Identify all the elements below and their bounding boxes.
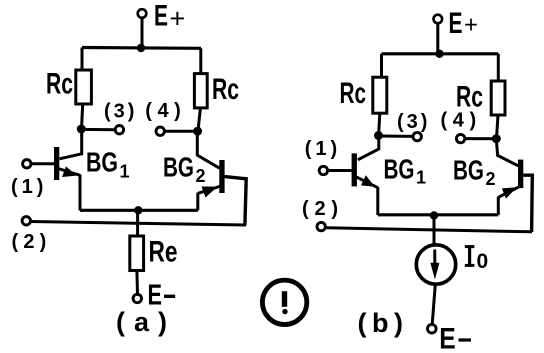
terminal (2) (a)	[22, 217, 30, 225]
wire base BG1 (a)	[31, 162, 54, 165]
junction collector node left (b)	[374, 131, 383, 140]
svg-text:Rc: Rc	[212, 73, 239, 106]
terminal (3) (b)	[413, 132, 421, 140]
wire rail to Rc left (a)	[81, 48, 84, 72]
terminal (1) (a)	[23, 160, 31, 168]
wire rail to Rc right (a)	[199, 48, 202, 74]
terminal (2) (b)	[317, 222, 325, 230]
junction collector node right (b)	[492, 134, 501, 143]
wire Rc to collector node (b)	[379, 113, 380, 135]
wire base BG2 (a)	[225, 177, 247, 225]
wire Rc right to node (a)	[198, 108, 200, 131]
wire collector BG2 (a)	[197, 131, 219, 168]
terminal E- (b)	[428, 324, 437, 333]
transistor BG1 (a)	[54, 147, 80, 211]
wire emitter rail (b)	[378, 213, 499, 216]
junction top rail (b)	[435, 50, 443, 58]
resistor Rc right (b)	[491, 81, 505, 115]
label E- (a)	[148, 280, 176, 312]
junction emitter rail (a)	[134, 206, 142, 214]
label E+ (b)	[449, 7, 479, 40]
svg-text:(b): (b)	[358, 308, 409, 338]
svg-text:Rc: Rc	[456, 81, 483, 114]
junction collector node right (a)	[193, 127, 202, 136]
resistor Rc left (b)	[373, 77, 387, 113]
svg-text:(a): (a)	[116, 307, 176, 337]
wire base BG2 (b)	[523, 175, 532, 232]
wire terminal 2 to BG2 base (b)	[326, 228, 532, 232]
label BG1 (b)	[384, 154, 427, 188]
wire terminal 2 to BG2 base (a)	[31, 222, 246, 226]
wire terminal 4 to node (a)	[164, 130, 197, 133]
svg-text:1: 1	[120, 162, 130, 182]
svg-text:Re: Re	[149, 236, 178, 269]
svg-text:Rc: Rc	[340, 77, 367, 110]
svg-text:(2): (2)	[12, 231, 52, 253]
label BG2 (a)	[163, 152, 206, 187]
svg-text:2: 2	[196, 166, 206, 186]
terminal E+ (a)	[138, 9, 147, 18]
wire emitter rail (a)	[80, 209, 198, 212]
wire Rc to collector node (a)	[82, 104, 83, 129]
wire Rc right to node (b)	[497, 115, 499, 139]
svg-text:(1): (1)	[305, 138, 341, 160]
transistor BG1 (b)	[352, 153, 378, 215]
label BG2 (b)	[453, 155, 496, 190]
terminal (3) (a)	[115, 126, 123, 134]
terminal E- (a)	[133, 294, 141, 302]
wire collector BG1 (a)	[60, 129, 82, 159]
wire top rail (a)	[82, 46, 201, 50]
transistor BG2 (a)	[198, 160, 225, 211]
label I0 (b)	[465, 246, 488, 273]
wire rail to Rc right (b)	[497, 54, 500, 82]
svg-text:(3): (3)	[397, 111, 430, 133]
svg-text:E: E	[449, 7, 463, 40]
resistor Rc right (a)	[194, 74, 207, 108]
svg-text:0: 0	[477, 250, 489, 273]
svg-text:(2): (2)	[302, 198, 344, 220]
terminal (1) (b)	[319, 166, 327, 174]
label BG1 (a)	[86, 147, 130, 182]
svg-text:Rc: Rc	[46, 68, 73, 101]
current source I0 (b)	[416, 245, 455, 284]
terminal (4) (a)	[156, 127, 164, 135]
wire node to terminal 3 (a)	[81, 128, 115, 131]
svg-text:(1): (1)	[11, 176, 47, 198]
transistor BG2 (b)	[498, 160, 523, 215]
terminal (4) (b)	[456, 134, 464, 142]
label E+ (a)	[154, 0, 185, 34]
resistor Rc left (a)	[76, 70, 92, 104]
terminal E+ (b)	[434, 15, 443, 24]
svg-text:E: E	[154, 0, 168, 33]
wire top rail (b)	[382, 52, 499, 55]
wire collector BG2 (b)	[496, 139, 518, 166]
svg-text:1: 1	[416, 168, 426, 188]
junction collector node left (a)	[77, 125, 86, 134]
wire junction to current source (b)	[433, 216, 436, 246]
wire terminal 4 to node (b)	[465, 137, 497, 140]
wire E+ to rail (b)	[436, 23, 439, 54]
wire junction to Re (a)	[136, 210, 139, 237]
svg-text:BG: BG	[86, 147, 118, 178]
wire E+ to rail (a)	[141, 18, 144, 48]
wire current source to E- (b)	[432, 284, 435, 324]
wire node to terminal 3 (b)	[379, 135, 414, 138]
svg-text:+: +	[170, 4, 186, 34]
svg-text:E: E	[439, 323, 456, 353]
icon exclamation circle	[262, 280, 306, 324]
wire rail to Rc left (b)	[380, 54, 383, 78]
junction top rail (a)	[137, 44, 145, 52]
wire Re to E- (a)	[135, 271, 139, 295]
resistor Re (a)	[130, 236, 144, 271]
svg-text:2: 2	[486, 169, 496, 189]
label E- (b)	[439, 323, 471, 353]
junction emitter rail (b)	[430, 211, 438, 219]
svg-text:BG: BG	[453, 155, 484, 186]
svg-text:BG: BG	[384, 154, 415, 185]
wire collector BG1 (b)	[358, 136, 379, 160]
svg-text:BG: BG	[163, 152, 194, 183]
svg-text:(3): (3)	[104, 101, 137, 123]
svg-text:+: +	[464, 12, 478, 39]
svg-text:(4): (4)	[145, 100, 186, 122]
wire base BG1 (b)	[328, 169, 352, 172]
